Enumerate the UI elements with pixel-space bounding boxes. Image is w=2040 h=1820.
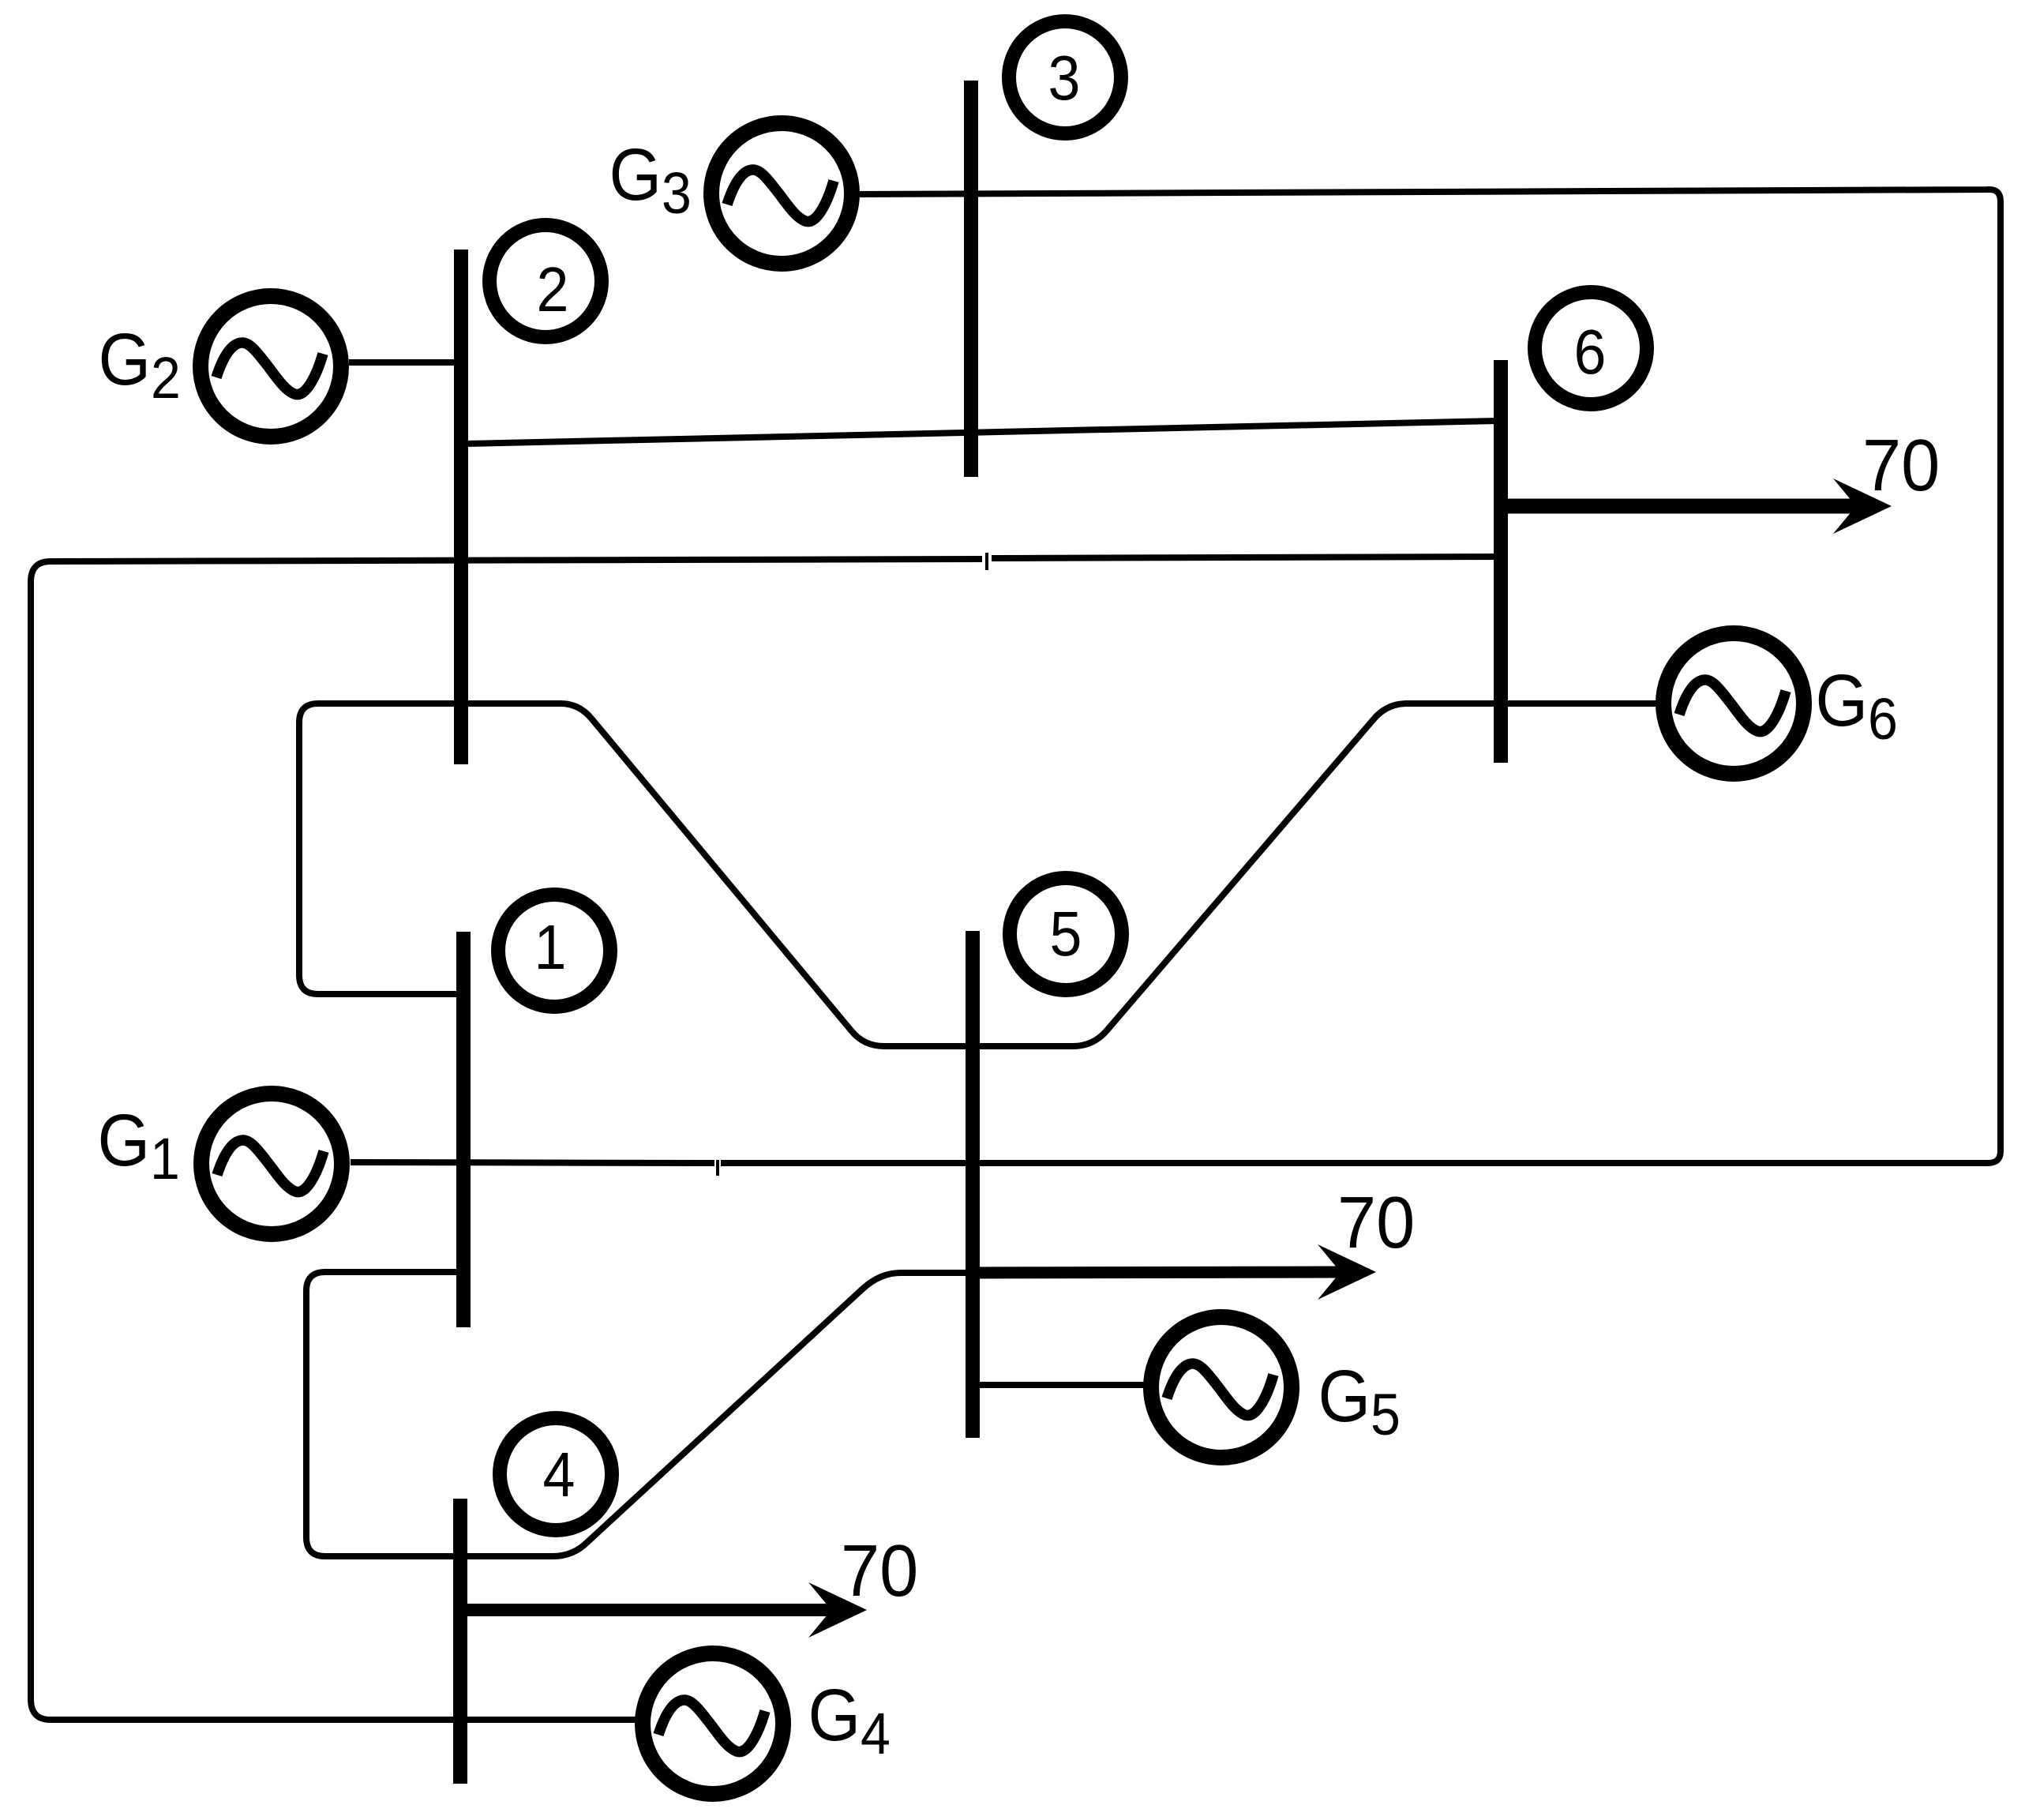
svg-text:1: 1 — [534, 912, 567, 983]
svg-text:2: 2 — [537, 254, 569, 325]
svg-text:5: 5 — [1050, 899, 1082, 970]
svg-text:6: 6 — [1574, 317, 1607, 388]
svg-text:3: 3 — [1048, 43, 1081, 114]
svg-text:70: 70 — [1862, 425, 1940, 507]
svg-text:70: 70 — [841, 1530, 918, 1612]
svg-text:4: 4 — [543, 1439, 576, 1510]
svg-text:70: 70 — [1337, 1182, 1415, 1264]
